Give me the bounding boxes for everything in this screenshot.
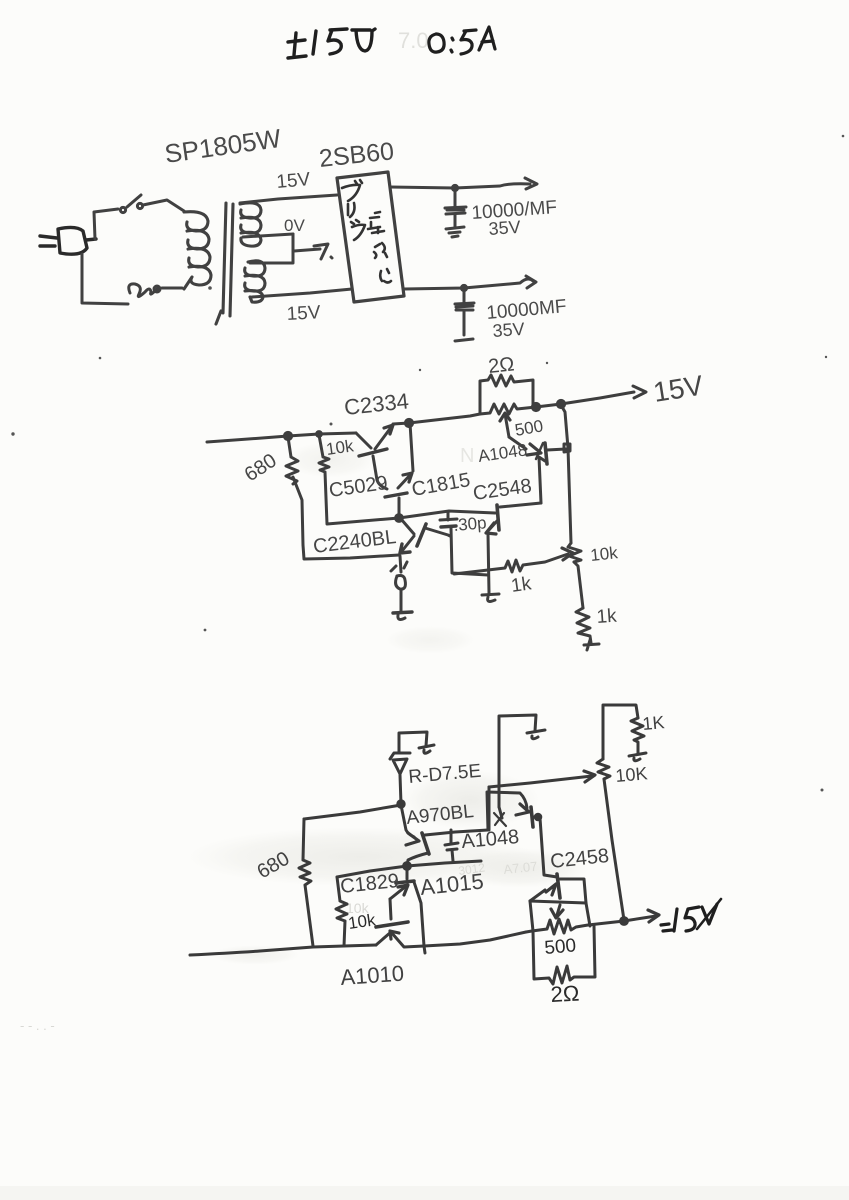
svg-text:35V: 35V bbox=[492, 319, 525, 341]
svg-text:7.0: 7.0 bbox=[398, 28, 429, 53]
svg-text:15V: 15V bbox=[276, 169, 312, 193]
svg-text:A1010: A1010 bbox=[340, 961, 405, 990]
svg-text:- - . . -: - - . . - bbox=[20, 1018, 55, 1033]
svg-text:10k: 10k bbox=[347, 910, 377, 933]
svg-text:.30p: .30p bbox=[453, 513, 488, 535]
svg-text:2Ω: 2Ω bbox=[550, 981, 580, 1007]
svg-text:500: 500 bbox=[544, 935, 577, 959]
svg-text:0V: 0V bbox=[284, 216, 305, 235]
svg-text:1k: 1k bbox=[510, 573, 533, 597]
svg-text:1k: 1k bbox=[596, 606, 618, 628]
svg-text:10k: 10k bbox=[325, 436, 355, 459]
svg-text:10K: 10K bbox=[615, 763, 649, 786]
svg-text:N: N bbox=[460, 445, 474, 467]
svg-text:2Ω: 2Ω bbox=[487, 353, 515, 378]
svg-text:1K: 1K bbox=[642, 712, 666, 734]
svg-text:10k: 10k bbox=[589, 543, 619, 565]
svg-text:15V: 15V bbox=[286, 302, 321, 325]
svg-text:35V: 35V bbox=[488, 217, 521, 239]
